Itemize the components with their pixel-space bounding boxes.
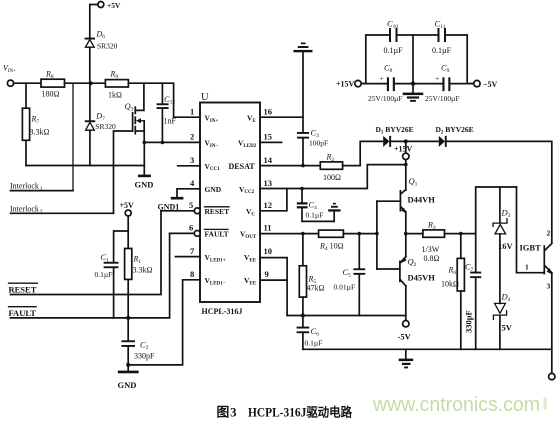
svg-text:3.3kΩ: 3.3kΩ <box>133 266 153 275</box>
svg-text:DESAT: DESAT <box>229 162 256 171</box>
capacitor C7 330pF <box>464 234 482 350</box>
svg-text:330pF: 330pF <box>134 352 155 361</box>
junction Q3 source / pin2 <box>143 141 147 145</box>
svg-text:RESET: RESET <box>205 207 230 216</box>
pin 4 label GND <box>190 178 222 194</box>
capacitor C4 0.1uF <box>297 189 334 222</box>
wire D2 to IGBT collector <box>447 141 552 242</box>
capacitor C5 0.01uF <box>334 234 366 316</box>
pin 13 label Vcc2 <box>239 178 272 195</box>
svg-text:1: 1 <box>190 107 194 117</box>
wire gnd bus (R7 bottom to GND) <box>26 165 144 167</box>
junction pin8 / C2 <box>126 363 130 367</box>
svg-text:-5V: -5V <box>398 332 412 342</box>
svg-text:14: 14 <box>264 155 273 165</box>
svg-text:HCPL-316J: HCPL-316J <box>202 307 243 316</box>
svg-text:5: 5 <box>189 200 193 210</box>
op-amp U HCPL-316J chip body <box>200 92 260 316</box>
terminal +5V (mid) <box>120 201 135 216</box>
svg-text:R4 10Ω: R4 10Ω <box>319 242 344 253</box>
diode D4 zener 5V <box>493 292 512 350</box>
terminal -5V <box>398 321 412 342</box>
svg-text:9: 9 <box>265 269 269 279</box>
svg-text:3: 3 <box>547 282 551 291</box>
svg-text:+5V: +5V <box>120 201 135 210</box>
wire R2 to diode line <box>343 141 384 165</box>
svg-text:SR320: SR320 <box>97 42 118 51</box>
caption <box>217 405 353 420</box>
svg-text:2: 2 <box>547 229 551 238</box>
terminal IGBT emitter <box>549 373 555 379</box>
node Interlock1 <box>10 182 73 193</box>
diode D6 SR320 <box>85 30 118 84</box>
svg-text:+: + <box>435 74 439 83</box>
wire pin4 to GND1 <box>177 189 200 197</box>
wire pin11 Vout to R4 <box>260 233 319 235</box>
diode D2 BYV26E <box>436 125 474 147</box>
svg-text:3: 3 <box>190 155 194 165</box>
wire C9 to -5V <box>450 83 473 85</box>
pin 9 label Vee <box>244 269 269 286</box>
capacitor C12 1nF <box>157 83 177 142</box>
wire -5V rail <box>287 315 406 317</box>
terminal +5V (top) <box>98 1 121 10</box>
resistor R1 3.3kohm <box>125 249 153 318</box>
resistor R2 100ohm <box>320 153 342 183</box>
resistor R8 180ohm <box>41 70 65 99</box>
svg-text:0.1µF: 0.1µF <box>305 339 323 348</box>
resistor R7 3.3kohm <box>22 83 49 165</box>
wire decoupling left vertical <box>362 35 389 84</box>
wire +5V to D6 <box>90 5 98 38</box>
node Interlock2 <box>10 205 114 216</box>
svg-text:IGBT: IGBT <box>520 243 542 253</box>
svg-text:6: 6 <box>189 223 193 233</box>
node A junction <box>89 81 93 85</box>
wire pin13 Vcc2 to +15V line <box>260 165 406 189</box>
pin 11 label Vout <box>240 223 272 240</box>
svg-text:15: 15 <box>264 132 273 142</box>
junction R6 / gate line <box>459 232 463 236</box>
pin 3 label Vcc1 <box>190 155 220 172</box>
svg-text:Interlock: Interlock <box>10 205 39 214</box>
transistor IGBT <box>520 229 553 374</box>
resistor R5 47kohm <box>299 234 324 316</box>
wire emitter common rail <box>303 348 552 350</box>
wire pin3 stub <box>178 165 200 167</box>
pin 8 label Vled1- <box>190 269 226 286</box>
watermark <box>372 394 547 416</box>
wire pin12 Vc to Vcc2 <box>260 189 287 211</box>
svg-text:−5V: −5V <box>483 80 498 89</box>
svg-text:2: 2 <box>190 132 194 142</box>
ground GND1 bar <box>158 197 184 212</box>
junction R1 C1 on FAULT line <box>126 316 130 320</box>
wire D1 to D2 <box>391 140 439 142</box>
svg-text:GND: GND <box>118 380 137 390</box>
wire Vin+ branch to Interlock1 <box>72 83 74 190</box>
wire gate drive riser to clamp bus <box>476 187 517 234</box>
svg-text:www.cntronics.com: www.cntronics.com <box>372 394 540 416</box>
svg-text:47kΩ: 47kΩ <box>307 284 325 293</box>
svg-text:+5V: +5V <box>107 1 121 10</box>
svg-text:1kΩ: 1kΩ <box>108 91 122 100</box>
ground (top VE ground) <box>294 43 313 133</box>
svg-text:FAULT: FAULT <box>9 308 37 318</box>
capacitor C10 0.1uF <box>384 19 404 56</box>
wire Q3 source to gnd symbol <box>143 142 145 174</box>
wire pin14 DESAT line <box>260 165 320 167</box>
svg-text:100Ω: 100Ω <box>323 173 341 182</box>
ground (primary GND bar) <box>135 175 154 190</box>
svg-text:16: 16 <box>264 107 273 117</box>
node RESET <box>9 211 162 295</box>
junction C4 / Vcc2 line <box>300 187 304 191</box>
terminal Vin+ <box>3 64 16 87</box>
transistor Q1 D44VH <box>377 176 435 234</box>
svg-text:10: 10 <box>264 246 273 256</box>
svg-text:+15V: +15V <box>336 79 355 88</box>
capacitor C9 25V/100uF <box>425 63 460 104</box>
wire R4 to base tie <box>343 233 377 235</box>
wire pin2 line <box>144 141 200 143</box>
svg-text:10kΩ: 10kΩ <box>441 280 459 289</box>
wire pins 9 10 Vee to -5V rail <box>260 258 287 316</box>
capacitor C6 0.1uF <box>297 316 323 350</box>
svg-text:FAULT: FAULT <box>205 230 229 239</box>
pin 16 label Ve <box>247 107 272 124</box>
svg-text:0.1µF: 0.1µF <box>384 46 404 55</box>
svg-text:25V/100µF: 25V/100µF <box>368 94 403 103</box>
svg-text:1/3W: 1/3W <box>422 245 440 254</box>
wire C8 to C9 <box>395 83 443 85</box>
junction C5 / Vout line <box>358 232 362 236</box>
resistor R9 1kohm <box>105 70 128 100</box>
capacitor C3 100pF <box>297 128 328 166</box>
svg-text:5V: 5V <box>502 323 513 333</box>
resistor R4 10ohm <box>319 230 344 252</box>
junction C12 / pin2 <box>161 141 165 145</box>
svg-text:16V: 16V <box>498 241 514 251</box>
svg-text:+: + <box>380 74 384 83</box>
svg-text:1nF: 1nF <box>164 117 177 126</box>
svg-text:U: U <box>201 92 209 103</box>
diode D3 zener 16V <box>493 187 514 303</box>
ground (decoupling mid) <box>403 84 424 102</box>
pin 12 label Vc <box>246 200 272 217</box>
svg-text:RESET: RESET <box>9 285 37 295</box>
junction Vout / base tie <box>375 232 379 236</box>
svg-text:12: 12 <box>264 200 273 210</box>
capacitor C8 25V/100uF <box>362 63 403 104</box>
svg-text:0.1µF: 0.1µF <box>95 270 113 279</box>
wire Vin+ to R8 <box>14 82 41 84</box>
wire pin15 stub <box>260 141 282 143</box>
pin 5 label RESET <box>189 200 229 216</box>
ground (C4 local ground) <box>328 203 340 212</box>
pin 14 label DESAT <box>229 155 273 171</box>
wire pin16 to VE node <box>260 116 303 118</box>
terminal +15V (decoupling) <box>336 79 361 88</box>
capacitor C1 0.1uF <box>95 252 119 318</box>
wire gate to IGBT <box>517 187 545 273</box>
svg-text:3.3kΩ: 3.3kΩ <box>30 128 50 137</box>
terminal +15V <box>394 141 413 159</box>
diode D1 BYV26E <box>376 125 414 147</box>
svg-text:11: 11 <box>264 223 272 233</box>
svg-text:100pF: 100pF <box>309 139 328 148</box>
wire +15V to Q1 collector <box>405 160 407 190</box>
junction Q1 Q2 emitters <box>404 232 408 236</box>
pin 1 label Vin+ <box>190 107 218 124</box>
pin 10 label Vee <box>244 246 272 263</box>
junction Vcc2 / +15V column <box>404 163 408 167</box>
svg-text:8: 8 <box>190 269 194 279</box>
wire R8 to node A <box>65 82 106 84</box>
ground (C2 GND bar) <box>118 371 139 390</box>
junction C3 / DESAT <box>301 164 305 168</box>
svg-text:25V/100µF: 25V/100µF <box>425 94 460 103</box>
diode D7 SR320 <box>85 83 116 165</box>
wire pin8 to C2 bottom <box>128 280 200 365</box>
svg-text:0.1µF: 0.1µF <box>306 211 324 220</box>
junction decoupling mid <box>411 35 415 86</box>
capacitor C2 330pF <box>121 318 155 371</box>
svg-text:0.8Ω: 0.8Ω <box>424 254 440 263</box>
svg-text:Interlock: Interlock <box>10 182 39 191</box>
junction R5 / Vout line <box>301 232 305 236</box>
pin 7 label Vled1+ <box>190 246 226 263</box>
pin 6 label FAULT <box>189 223 229 239</box>
svg-text:0.1µF: 0.1µF <box>432 46 452 55</box>
svg-text:0.01µF: 0.01µF <box>334 283 356 292</box>
svg-text:180Ω: 180Ω <box>42 90 60 99</box>
pin 5 inversion bubble and wire <box>161 208 200 214</box>
svg-text:GND: GND <box>205 185 222 194</box>
wire decoupling right vertical <box>446 35 474 84</box>
svg-text:D45VH: D45VH <box>408 273 436 283</box>
wire base tie Q1 Q2 <box>376 201 378 269</box>
wire pin7 stub <box>176 256 201 258</box>
svg-text:GND: GND <box>135 180 154 190</box>
svg-text:图3: 图3 <box>217 406 237 420</box>
svg-text:13: 13 <box>264 178 273 188</box>
terminal -5V (decoupling) <box>474 80 498 89</box>
pin 15 label Vled2 <box>238 132 272 149</box>
pin 2 label Vin- <box>190 132 218 149</box>
wire +5V to C1 R1 <box>114 216 129 262</box>
svg-text:330pF: 330pF <box>464 310 474 333</box>
svg-text:SR320: SR320 <box>95 122 116 131</box>
wire C10 to C11 <box>398 34 438 36</box>
junction +15V tap <box>404 139 408 143</box>
resistor R3 0.8ohm <box>406 221 476 264</box>
resistor R6 10kohm <box>441 234 464 350</box>
svg-text:1: 1 <box>525 263 529 272</box>
svg-text:+15V: +15V <box>394 145 413 154</box>
node FAULT <box>9 233 170 318</box>
ground (secondary common) <box>399 349 414 368</box>
pin 6 inversion bubble and wire <box>170 231 201 237</box>
svg-text:D44VH: D44VH <box>408 195 436 205</box>
transistor Q2 D45VH <box>377 234 435 321</box>
transistor Q3 <box>125 83 145 142</box>
capacitor C11 0.1uF <box>432 19 452 56</box>
junction C6 / -5V rail <box>301 314 305 318</box>
wire R9 to pin1 corner <box>128 83 200 117</box>
svg-text:HCPL-316J驱动电路: HCPL-316J驱动电路 <box>248 405 353 420</box>
wire Q3 gate to interlock2 riser <box>114 131 133 213</box>
